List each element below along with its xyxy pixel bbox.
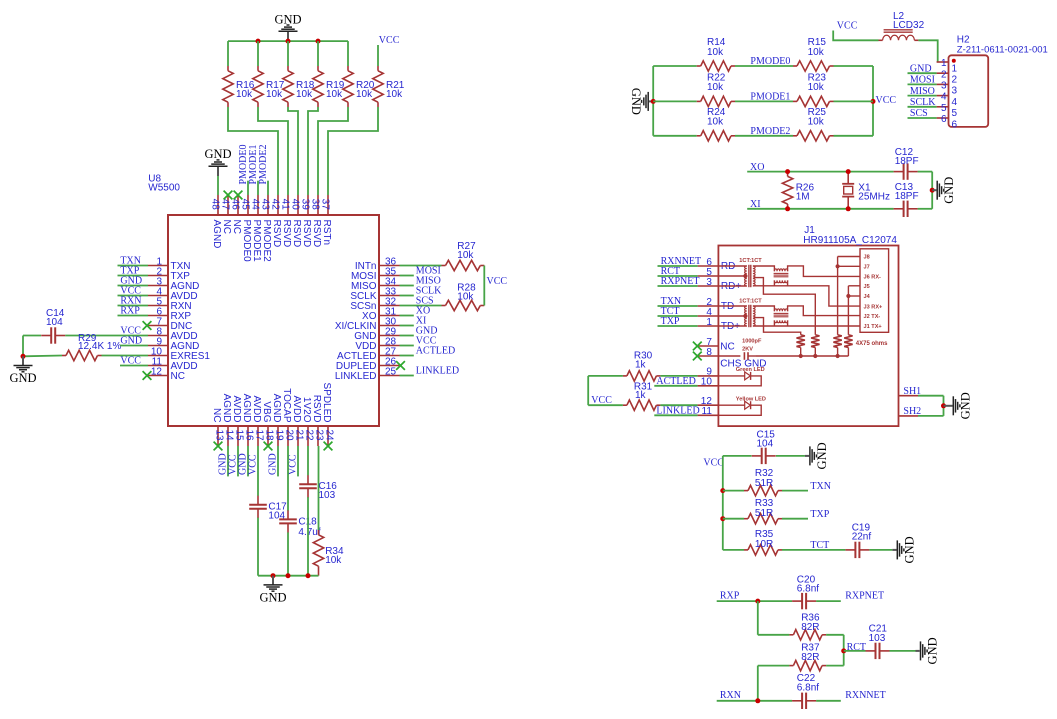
node label RXN bbox=[720, 690, 741, 701]
svg-text:1: 1 bbox=[952, 63, 958, 74]
wire R33 to TXP bbox=[782, 509, 830, 520]
svg-text:25: 25 bbox=[385, 366, 397, 377]
svg-text:NC: NC bbox=[221, 220, 232, 234]
junction bottom rail GND bbox=[271, 573, 276, 578]
junction top rail GND bbox=[286, 39, 291, 44]
svg-text:2: 2 bbox=[941, 69, 947, 80]
no-connect X pin 7 bbox=[143, 321, 152, 330]
svg-text:2KV: 2KV bbox=[742, 347, 753, 353]
node label RXPNET bbox=[845, 591, 884, 602]
wire C19 to GND bbox=[869, 549, 892, 551]
svg-text:HR911105A_C12074: HR911105A_C12074 bbox=[803, 235, 897, 246]
svg-text:PMODE2: PMODE2 bbox=[750, 126, 790, 137]
svg-text:10k: 10k bbox=[808, 82, 825, 93]
svg-text:NC: NC bbox=[720, 341, 734, 352]
svg-text:10k: 10k bbox=[326, 89, 343, 100]
wire R31 to J1 pin12 bbox=[660, 404, 697, 406]
wire XI row bbox=[747, 208, 932, 210]
ground GND left of IC bbox=[9, 356, 36, 385]
svg-text:SCLK: SCLK bbox=[910, 97, 936, 108]
connector J1 HR911105A_C12074 body bbox=[718, 225, 898, 426]
svg-text:1CT:1CT: 1CT:1CT bbox=[739, 258, 762, 264]
choke T2 secondary bbox=[753, 306, 789, 326]
svg-text:GND: GND bbox=[267, 453, 278, 475]
junction bottom rail pin22 bbox=[306, 573, 311, 578]
connector J1 pin SH1 bbox=[899, 386, 922, 397]
wire row PMODE0 right bbox=[834, 65, 874, 67]
wire row PMODE2 right bbox=[834, 135, 874, 137]
connector J1 pin 10 bbox=[698, 377, 719, 388]
U8 left pins 1-12 bbox=[148, 256, 210, 382]
svg-text:3: 3 bbox=[941, 81, 947, 92]
diode Yellow LED bbox=[718, 396, 766, 415]
svg-text:VCC: VCC bbox=[120, 356, 141, 367]
svg-text:NC: NC bbox=[231, 220, 242, 234]
svg-text:6.8nf: 6.8nf bbox=[797, 682, 819, 693]
svg-text:10k: 10k bbox=[296, 89, 313, 100]
wire R37 row bbox=[758, 665, 790, 667]
svg-text:10k: 10k bbox=[266, 89, 283, 100]
wire C21 to GND bbox=[890, 650, 916, 652]
resistor R14 bbox=[697, 37, 735, 71]
svg-text:20: 20 bbox=[283, 430, 294, 442]
svg-text:LINKLED: LINKLED bbox=[656, 406, 699, 417]
svg-text:ACTLED: ACTLED bbox=[416, 346, 455, 357]
wire ACTLED to J1 pin10 bbox=[654, 376, 697, 387]
svg-text:RXPNET: RXPNET bbox=[661, 276, 700, 287]
wire R30 to J1 pin9 bbox=[660, 375, 697, 377]
no-connect X pin 12 bbox=[143, 371, 152, 380]
wire pin22 column bbox=[307, 446, 309, 576]
wire RXP row bbox=[717, 600, 841, 602]
svg-text:TXN: TXN bbox=[810, 481, 831, 492]
svg-text:J8: J8 bbox=[864, 255, 870, 261]
no-connect X pin 47 bbox=[224, 191, 233, 200]
svg-text:1CT:1CT: 1CT:1CT bbox=[739, 298, 762, 304]
node label PMODE1 bbox=[750, 92, 790, 103]
svg-text:10R: 10R bbox=[755, 539, 773, 550]
svg-text:J2 TX-: J2 TX- bbox=[864, 314, 881, 320]
svg-text:1V2O: 1V2O bbox=[301, 397, 312, 423]
svg-text:44: 44 bbox=[250, 199, 261, 211]
no-connect X pin 13 bbox=[214, 442, 223, 451]
svg-text:VCC: VCC bbox=[247, 454, 258, 475]
svg-text:18PF: 18PF bbox=[895, 191, 919, 202]
svg-text:RXP: RXP bbox=[120, 306, 140, 317]
resistor R21 bbox=[373, 66, 405, 107]
wire RXN row bbox=[717, 700, 841, 702]
svg-text:25MHz: 25MHz bbox=[858, 192, 890, 203]
junction R32 bbox=[720, 488, 725, 493]
svg-text:GND: GND bbox=[815, 442, 829, 469]
resistor R18 bbox=[283, 66, 315, 107]
junction R26 bottom bbox=[785, 206, 790, 211]
op-amp U8 W5500 body bbox=[148, 174, 379, 427]
svg-text:4X75 ohms: 4X75 ohms bbox=[856, 341, 888, 347]
node VCC right of PMODE network bbox=[876, 95, 897, 106]
wire VCC net to pin 8 with C14 branch bbox=[23, 336, 148, 357]
svg-text:15: 15 bbox=[233, 430, 244, 442]
wire pin23 column bbox=[318, 446, 320, 530]
svg-text:82R: 82R bbox=[801, 622, 819, 633]
resistor R25 bbox=[793, 107, 834, 141]
junction X1 top bbox=[846, 169, 851, 174]
capacitor C18 bbox=[279, 510, 321, 537]
wire R37 to RCT vertical bbox=[826, 665, 844, 667]
connector H2 pins bbox=[937, 58, 958, 130]
svg-text:AGND: AGND bbox=[221, 394, 232, 423]
svg-text:41: 41 bbox=[280, 199, 291, 211]
wire J8 to R3 vertical bbox=[838, 257, 860, 335]
connector J1 pins 6,5,3,2,4,1 with node labels bbox=[658, 256, 742, 332]
resistor R34 bbox=[313, 530, 344, 576]
svg-text:46: 46 bbox=[230, 199, 241, 211]
connector J1 pin 7 NC bbox=[698, 337, 735, 353]
node VCC above R21 bbox=[379, 35, 400, 46]
junction rail R1 bbox=[799, 354, 803, 358]
svg-text:10k: 10k bbox=[457, 291, 474, 302]
junction top rail R17 bbox=[256, 39, 261, 44]
node label PMODE2 bbox=[750, 126, 790, 137]
svg-text:10k: 10k bbox=[707, 47, 724, 58]
connector J1 pin 8 CHS GND bbox=[698, 347, 767, 370]
svg-text:Yellow LED: Yellow LED bbox=[736, 396, 766, 402]
wire T1 choke to J6 bbox=[788, 266, 860, 277]
svg-text:RSVD: RSVD bbox=[301, 220, 312, 248]
svg-text:40: 40 bbox=[290, 199, 301, 211]
wire row PMODE0 middle bbox=[735, 65, 793, 67]
resistor R36 bbox=[789, 613, 826, 641]
svg-text:MOSI: MOSI bbox=[910, 75, 935, 86]
svg-text:NC: NC bbox=[211, 408, 222, 422]
node label RXNNET bbox=[845, 690, 886, 701]
wire VCC to C15 bbox=[723, 455, 805, 457]
junction rail R3 bbox=[836, 354, 840, 358]
svg-text:ACTLED: ACTLED bbox=[656, 376, 695, 387]
svg-text:1k: 1k bbox=[635, 390, 647, 401]
svg-text:17: 17 bbox=[253, 430, 264, 442]
svg-text:LINKLED: LINKLED bbox=[335, 371, 377, 382]
svg-text:VBG: VBG bbox=[261, 401, 272, 422]
svg-text:10k: 10k bbox=[236, 89, 253, 100]
connector J1 pin SH2 bbox=[899, 406, 922, 417]
svg-text:RD-: RD- bbox=[721, 261, 739, 272]
junction J4 on R4 vertical bbox=[846, 294, 850, 298]
svg-text:PMODE2: PMODE2 bbox=[258, 144, 269, 184]
resistor R17 bbox=[253, 66, 285, 107]
wire R17 to pin41 bbox=[258, 107, 288, 195]
node label XI bbox=[750, 199, 761, 210]
svg-text:J6 RX-: J6 RX- bbox=[864, 275, 882, 281]
svg-text:5: 5 bbox=[952, 108, 958, 119]
svg-text:TXP: TXP bbox=[661, 316, 680, 327]
wire GND junction to R29 bbox=[23, 355, 148, 358]
junction J7 on R3 vertical bbox=[836, 264, 840, 268]
svg-text:2: 2 bbox=[952, 75, 958, 86]
svg-text:TD-: TD- bbox=[721, 301, 738, 312]
wire to R32 bbox=[723, 490, 744, 492]
svg-text:1k: 1k bbox=[635, 359, 647, 370]
junction PMODE GND bbox=[651, 99, 656, 104]
capacitor C15 bbox=[752, 429, 776, 464]
node label XO bbox=[750, 162, 764, 173]
svg-text:103: 103 bbox=[869, 633, 886, 644]
wire row PMODE1 middle bbox=[735, 100, 793, 102]
ground GND at C19 bbox=[892, 536, 916, 563]
svg-text:GND: GND bbox=[926, 637, 940, 664]
svg-text:10k: 10k bbox=[707, 82, 724, 93]
wire R27-R28 VCC bbox=[483, 266, 485, 306]
wire pin36 to R27 bbox=[400, 265, 442, 267]
svg-text:VCC: VCC bbox=[837, 21, 858, 32]
svg-text:RXP: RXP bbox=[720, 591, 740, 602]
svg-text:3: 3 bbox=[952, 86, 958, 97]
wire J5 to R4 vertical bbox=[848, 286, 860, 335]
node label RCT bbox=[847, 642, 866, 653]
capacitor C13 bbox=[894, 182, 919, 217]
node label PMODE0 bbox=[750, 56, 790, 67]
connector J1 pin 9 bbox=[698, 367, 719, 378]
svg-text:RSVD: RSVD bbox=[311, 220, 322, 248]
svg-text:GND: GND bbox=[629, 88, 643, 115]
crystal X1 bbox=[842, 172, 890, 209]
node VCC at R30/R31 bbox=[591, 395, 612, 406]
resistor R31 bbox=[623, 381, 661, 410]
wire row PMODE1 left bbox=[653, 100, 697, 102]
svg-text:12: 12 bbox=[151, 366, 163, 377]
svg-text:AGND: AGND bbox=[241, 394, 252, 423]
svg-text:22: 22 bbox=[303, 430, 314, 442]
svg-text:43: 43 bbox=[260, 199, 271, 211]
wire RXP to R36 bbox=[758, 601, 790, 635]
svg-text:MISO: MISO bbox=[910, 86, 935, 97]
resistor 75R #2 bbox=[811, 335, 819, 356]
ground GND crystal bbox=[932, 177, 956, 204]
svg-text:1: 1 bbox=[706, 317, 712, 328]
svg-text:TOCAP: TOCAP bbox=[281, 388, 292, 423]
wire T2 center tap to R1 bbox=[754, 318, 801, 335]
svg-text:TD+: TD+ bbox=[721, 321, 740, 332]
junction at C14/R29 GND node bbox=[21, 354, 26, 359]
svg-text:GND: GND bbox=[902, 536, 916, 563]
svg-text:10k: 10k bbox=[808, 117, 825, 128]
wire R18 to pin40 bbox=[288, 107, 298, 195]
svg-text:6: 6 bbox=[941, 114, 947, 125]
svg-text:GND: GND bbox=[274, 12, 301, 26]
wire pin17 column bbox=[257, 446, 259, 576]
ground GND at SH bbox=[944, 392, 973, 419]
svg-text:Z-211-0611-0021-001: Z-211-0611-0021-001 bbox=[957, 44, 1048, 55]
svg-text:5: 5 bbox=[941, 103, 947, 114]
junction RCT bbox=[841, 648, 846, 653]
connector J1 pin 11 bbox=[698, 406, 719, 417]
svg-text:GND: GND bbox=[910, 63, 932, 74]
wire VCC to R21 bbox=[377, 45, 379, 66]
svg-text:PMODE0: PMODE0 bbox=[750, 56, 790, 67]
svg-text:VCC: VCC bbox=[487, 276, 508, 287]
wires rail to R16-R20 bbox=[228, 41, 348, 66]
svg-text:48: 48 bbox=[210, 199, 221, 211]
wires and node labels H2 bbox=[908, 63, 937, 119]
transformer T2 TX 1CT:1CT bbox=[718, 298, 762, 327]
resistor R23 bbox=[793, 72, 834, 106]
svg-text:GND: GND bbox=[259, 590, 286, 604]
wire pin32 to R28 bbox=[400, 305, 442, 307]
svg-text:42: 42 bbox=[270, 199, 281, 211]
ground GND at C15 bbox=[805, 442, 829, 469]
junction T1 center tap bbox=[743, 274, 747, 278]
capacitor C12 bbox=[894, 147, 919, 180]
svg-text:PMODE1: PMODE1 bbox=[750, 92, 790, 103]
wire T1 secondary bottom to J3 bbox=[753, 286, 860, 306]
wire R19 to pin39 bbox=[308, 107, 318, 195]
U8 bottom pins 13-24 bbox=[211, 382, 334, 446]
svg-text:1M: 1M bbox=[796, 192, 810, 203]
svg-text:AGND: AGND bbox=[271, 394, 282, 423]
svg-text:AVDD: AVDD bbox=[291, 395, 302, 422]
svg-text:RXPNET: RXPNET bbox=[845, 591, 884, 602]
svg-text:SPDLED: SPDLED bbox=[321, 382, 332, 422]
resistor R22 bbox=[697, 72, 735, 106]
resistor 75R #1 bbox=[797, 335, 805, 356]
svg-text:37: 37 bbox=[320, 199, 331, 211]
svg-text:RXNNET: RXNNET bbox=[845, 690, 886, 701]
wire VCC to R31 bbox=[588, 404, 623, 406]
svg-text:GND: GND bbox=[958, 392, 972, 419]
svg-text:SCS: SCS bbox=[910, 108, 928, 119]
resistor 75R #3 bbox=[833, 335, 841, 356]
svg-text:38: 38 bbox=[310, 199, 321, 211]
svg-text:J3 RX+: J3 RX+ bbox=[864, 304, 884, 310]
svg-text:10k: 10k bbox=[808, 47, 825, 58]
wire R32 to TXN bbox=[782, 481, 831, 492]
svg-text:10k: 10k bbox=[386, 89, 403, 100]
resistor R28 bbox=[442, 283, 485, 311]
svg-text:1: 1 bbox=[941, 58, 947, 69]
label 4X75 ohms bbox=[856, 341, 888, 347]
svg-text:10k: 10k bbox=[707, 117, 724, 128]
ground GND above pin 48 bbox=[204, 147, 231, 176]
svg-text:GND: GND bbox=[942, 177, 956, 204]
svg-text:4: 4 bbox=[952, 97, 958, 108]
svg-text:23: 23 bbox=[313, 430, 324, 442]
resistor R24 bbox=[697, 107, 735, 141]
svg-text:22nf: 22nf bbox=[852, 532, 872, 543]
inductor L2 bbox=[879, 11, 925, 40]
transformer T1 RX 1CT:1CT bbox=[718, 258, 762, 287]
ground GND under U8 bbox=[259, 576, 286, 605]
junction PMODE VCC bbox=[871, 99, 876, 104]
capacitor C17 bbox=[249, 496, 287, 522]
svg-text:10k: 10k bbox=[325, 555, 342, 566]
svg-text:AGND: AGND bbox=[211, 220, 222, 249]
U8 right pins 36-25 bbox=[335, 256, 400, 382]
connector H2 body bbox=[949, 35, 1048, 127]
svg-text:AVDD: AVDD bbox=[231, 395, 242, 422]
node label RXP bbox=[720, 591, 740, 602]
resistor R33 bbox=[744, 498, 782, 524]
no-connect X J1 pin 8 bbox=[693, 352, 702, 361]
wires and node labels PMODE0-2 bbox=[238, 144, 269, 195]
wire R16 to pin42 bbox=[228, 107, 278, 195]
svg-text:GND: GND bbox=[204, 147, 231, 161]
wire PMODE right vertical bbox=[872, 66, 874, 136]
diode Green LED bbox=[718, 367, 764, 386]
resistor R20 bbox=[343, 66, 375, 107]
svg-text:10k: 10k bbox=[356, 89, 373, 100]
svg-text:J1 TX+: J1 TX+ bbox=[864, 324, 883, 330]
junction T2 center tap bbox=[743, 314, 747, 318]
svg-text:VCC: VCC bbox=[287, 454, 298, 475]
svg-text:14: 14 bbox=[223, 430, 234, 442]
resistor R26 bbox=[782, 172, 814, 209]
resistor R30 bbox=[623, 350, 661, 381]
wire row PMODE0 left bbox=[653, 65, 697, 67]
svg-text:47: 47 bbox=[220, 199, 231, 211]
wire RXN to R37 bbox=[757, 666, 759, 701]
svg-text:J4: J4 bbox=[864, 294, 871, 300]
no-connect X pin 46 bbox=[234, 191, 243, 200]
svg-text:11: 11 bbox=[702, 406, 713, 417]
svg-text:4.7uf: 4.7uf bbox=[298, 527, 320, 538]
wire row PMODE2 middle bbox=[735, 135, 793, 137]
svg-text:RD+: RD+ bbox=[721, 281, 741, 292]
wire pin20 column bbox=[287, 446, 289, 576]
wires and node labels under U8 bottom pins bbox=[217, 446, 298, 476]
wire T1 center tap to R2 bbox=[754, 278, 816, 335]
svg-text:13: 13 bbox=[213, 430, 224, 442]
wires and node labels right of U8 bbox=[400, 266, 460, 377]
svg-text:AVDD: AVDD bbox=[251, 395, 262, 422]
ground GND PMODE network bbox=[629, 88, 653, 115]
svg-text:TCT: TCT bbox=[810, 540, 829, 551]
svg-text:LCD32: LCD32 bbox=[893, 20, 925, 31]
junction RXN bbox=[755, 698, 760, 703]
wire crystal right vertical bbox=[931, 172, 933, 209]
svg-text:10k: 10k bbox=[457, 250, 474, 261]
junction crystal GND bbox=[930, 188, 935, 193]
no-connect X pin 24 bbox=[324, 442, 333, 451]
svg-text:TXP: TXP bbox=[810, 509, 829, 520]
capacitor C14 bbox=[41, 308, 65, 344]
resistor R16 bbox=[223, 66, 255, 107]
junction top rail R19 bbox=[316, 39, 321, 44]
svg-text:PMODE0: PMODE0 bbox=[241, 220, 252, 263]
svg-text:104: 104 bbox=[46, 317, 63, 328]
resistor 75R #4 bbox=[844, 335, 852, 356]
resistor R37 bbox=[789, 643, 826, 671]
wire T2 choke to J2 bbox=[788, 306, 860, 316]
svg-text:PMODE1: PMODE1 bbox=[251, 220, 262, 263]
resistor R29 bbox=[62, 333, 121, 361]
resistor R27 bbox=[442, 241, 485, 271]
wire to R33 bbox=[723, 518, 744, 520]
junction X1 bottom bbox=[846, 206, 851, 211]
wire R36 to RCT vertical bbox=[826, 635, 844, 666]
svg-text:51R: 51R bbox=[755, 478, 773, 489]
svg-text:VCC: VCC bbox=[876, 95, 897, 106]
svg-text:4: 4 bbox=[941, 92, 947, 103]
resistor R15 bbox=[793, 37, 834, 71]
U8 top pins 48-37 bbox=[210, 195, 333, 262]
svg-text:NC: NC bbox=[171, 371, 185, 382]
wire XO row bbox=[747, 171, 932, 173]
svg-text:6.8nf: 6.8nf bbox=[797, 584, 819, 595]
svg-text:W5500: W5500 bbox=[148, 183, 180, 194]
wire VCC to R30 bbox=[588, 375, 623, 377]
capacitor C20 bbox=[792, 574, 819, 609]
junction rail R2 bbox=[813, 354, 817, 358]
